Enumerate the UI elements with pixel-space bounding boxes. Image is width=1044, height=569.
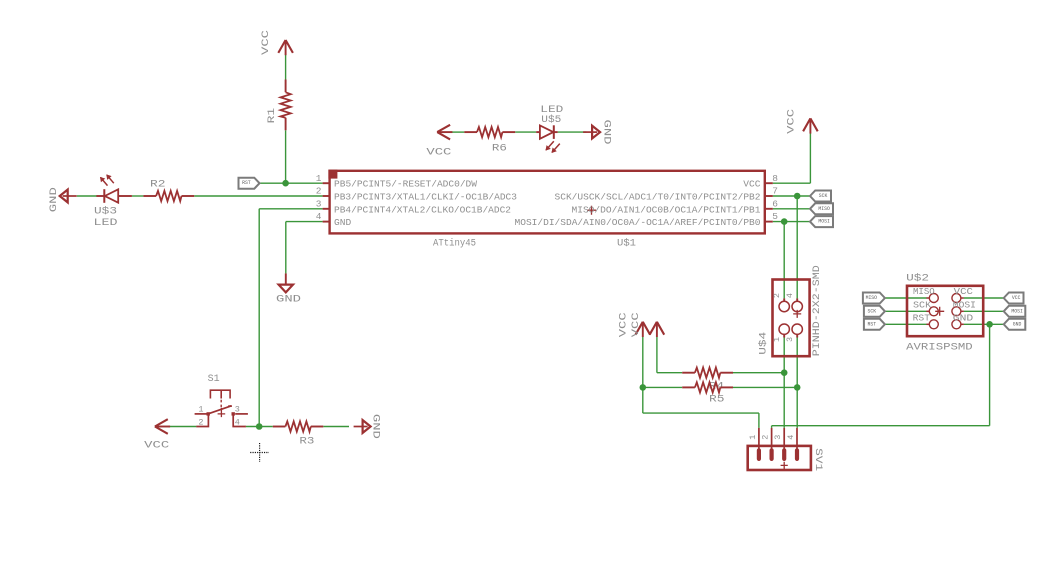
- svg-text:PB5/PCINT5/-RESET/ADC0/DW: PB5/PCINT5/-RESET/ADC0/DW: [334, 179, 477, 190]
- svg-text:U$3: U$3: [94, 206, 117, 218]
- svg-text:GND: GND: [334, 217, 352, 228]
- svg-text:VCC: VCC: [787, 109, 798, 134]
- svg-text:4: 4: [785, 293, 795, 298]
- svg-text:SCK: SCK: [868, 308, 877, 314]
- svg-text:MISO: MISO: [913, 287, 935, 297]
- svg-text:3: 3: [316, 198, 322, 209]
- svg-text:GND: GND: [370, 414, 381, 439]
- svg-text:MISO: MISO: [818, 206, 829, 212]
- svg-text:R1: R1: [267, 108, 278, 124]
- svg-text:PB4/PCINT4/XTAL2/CLKO/OC1B/ADC: PB4/PCINT4/XTAL2/CLKO/OC1B/ADC2: [334, 204, 511, 215]
- svg-text:GND: GND: [953, 314, 973, 324]
- svg-text:GND: GND: [49, 187, 60, 212]
- svg-text:GND: GND: [1013, 321, 1022, 327]
- svg-text:VCC: VCC: [954, 287, 974, 297]
- svg-text:2: 2: [198, 418, 203, 428]
- svg-text:4: 4: [316, 211, 322, 222]
- svg-text:1: 1: [316, 173, 322, 184]
- svg-text:VCC: VCC: [261, 30, 272, 55]
- svg-text:GND: GND: [600, 120, 611, 145]
- svg-text:R5: R5: [709, 394, 725, 405]
- svg-text:AVRISPSMD: AVRISPSMD: [906, 342, 973, 354]
- svg-text:SCK: SCK: [819, 193, 828, 199]
- svg-text:VCC: VCC: [144, 440, 169, 451]
- svg-text:U$4: U$4: [757, 332, 769, 355]
- svg-text:MISO: MISO: [866, 295, 877, 301]
- svg-text:RST: RST: [913, 314, 931, 324]
- svg-text:6: 6: [772, 198, 778, 209]
- svg-text:3: 3: [773, 435, 783, 440]
- svg-text:MOSI: MOSI: [818, 219, 829, 225]
- svg-text:3: 3: [235, 405, 240, 415]
- svg-text:S1: S1: [208, 374, 220, 385]
- svg-text:SCK: SCK: [913, 301, 932, 311]
- svg-text:RST: RST: [242, 180, 251, 186]
- svg-text:R6: R6: [492, 144, 507, 155]
- svg-text:ATtiny45: ATtiny45: [433, 237, 476, 249]
- svg-text:SV1: SV1: [812, 448, 823, 471]
- svg-text:2: 2: [761, 435, 771, 440]
- svg-text:R3: R3: [299, 437, 314, 448]
- svg-text:MISO/DO/AIN1/OC0B/OC1A/PCINT1/: MISO/DO/AIN1/OC0B/OC1A/PCINT1/PB1: [572, 204, 761, 215]
- svg-text:4: 4: [235, 418, 240, 428]
- svg-text:7: 7: [772, 186, 778, 197]
- svg-text:5: 5: [772, 211, 778, 222]
- svg-text:2: 2: [772, 293, 782, 298]
- svg-text:8: 8: [772, 173, 778, 184]
- svg-text:1: 1: [198, 405, 203, 415]
- svg-text:1: 1: [772, 337, 782, 342]
- svg-text:PB3/PCINT3/XTAL1/CLKI/-OC1B/AD: PB3/PCINT3/XTAL1/CLKI/-OC1B/ADC3: [334, 192, 517, 203]
- svg-text:VCC: VCC: [1012, 295, 1021, 301]
- svg-text:RST: RST: [868, 321, 877, 327]
- svg-text:MOSI: MOSI: [1011, 308, 1022, 314]
- svg-text:LED: LED: [94, 218, 118, 229]
- svg-text:1: 1: [748, 435, 758, 440]
- svg-text:R2: R2: [150, 179, 166, 190]
- svg-text:4: 4: [786, 435, 796, 440]
- svg-text:VCC: VCC: [631, 312, 642, 337]
- svg-text:SCK/USCK/SCL/ADC1/T0/INT0/PCIN: SCK/USCK/SCL/ADC1/T0/INT0/PCINT2/PB2: [555, 192, 761, 203]
- svg-text:3: 3: [785, 337, 795, 342]
- svg-text:MOSI/DI/SDA/AIN0/OC0A/-OC1A/AR: MOSI/DI/SDA/AIN0/OC0A/-OC1A/AREF/PCINT0/…: [515, 217, 761, 228]
- svg-text:VCC: VCC: [743, 179, 761, 190]
- svg-text:U$1: U$1: [617, 237, 636, 249]
- svg-text:U$5: U$5: [541, 114, 561, 126]
- svg-text:VCC: VCC: [426, 147, 451, 158]
- svg-text:MOSI: MOSI: [953, 301, 976, 311]
- svg-text:GND: GND: [276, 295, 301, 306]
- svg-text:PINHD-2X2-SMD: PINHD-2X2-SMD: [812, 265, 823, 356]
- svg-text:2: 2: [316, 186, 322, 197]
- svg-text:VCC: VCC: [619, 312, 630, 337]
- svg-text:U$2: U$2: [906, 273, 929, 285]
